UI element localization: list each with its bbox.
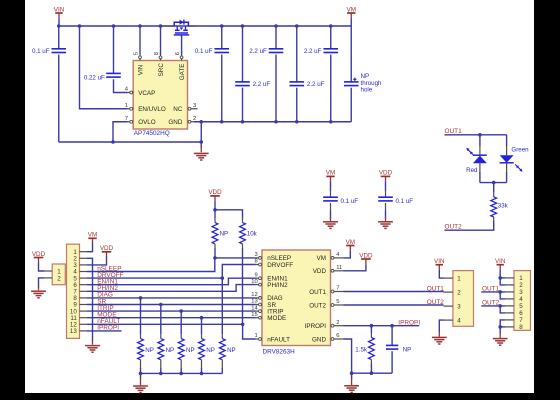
resistor R4 1.5k <box>355 326 374 374</box>
node dot nSLEEP pullup junction <box>213 256 217 260</box>
ground symbol at J4 <box>493 339 508 346</box>
node dot pulldown 1 <box>139 296 143 300</box>
J2 pin 11 stub <box>80 317 88 319</box>
J2 pin 2 stub <box>80 257 88 259</box>
J4 pin 8 stub <box>505 326 514 328</box>
U2 pin 2 IPROPI stub <box>305 320 344 330</box>
J2 pin 6 stub <box>80 284 88 286</box>
wire GND drop to ground <box>200 122 202 152</box>
svg-text:IPROPI: IPROPI <box>305 323 327 330</box>
wire J2 pin3 to VDD <box>87 257 107 265</box>
J4 pin 3 stub <box>505 291 514 293</box>
svg-text:AP74502HQ: AP74502HQ <box>134 130 170 137</box>
J2 pin 3 stub <box>80 264 88 266</box>
J3 pin 2 stub <box>444 291 453 293</box>
svg-text:3: 3 <box>254 252 257 258</box>
U2 pin 12 DIAG stub <box>251 292 283 302</box>
net label DRVOFF <box>97 272 123 279</box>
wire OUT1 LED top <box>445 134 507 136</box>
svg-text:0.22 uF: 0.22 uF <box>84 74 105 81</box>
U2 pin 3 nSLEEP stub <box>254 252 291 262</box>
op-amp U2 DRV8263H body <box>262 250 331 355</box>
U1 pin 8 SRC stub <box>154 52 165 76</box>
U1 pin 7 OVLO stub <box>125 116 156 126</box>
svg-text:7: 7 <box>125 116 128 122</box>
node dot VDD pullup branch <box>213 208 217 212</box>
svg-text:NC: NC <box>173 106 183 113</box>
svg-text:2: 2 <box>193 116 196 122</box>
svg-text:2.2 uF: 2.2 uF <box>253 81 271 88</box>
U2 pin 5 OUT2 stub <box>309 299 343 309</box>
svg-text:7: 7 <box>336 286 339 292</box>
power flag VM middle <box>326 170 335 191</box>
capacitor C3 0.1 uF <box>195 26 229 122</box>
node dot LED bottom <box>492 181 496 185</box>
wire pulldown rail to ground <box>140 373 142 385</box>
net label IPROPI <box>97 325 119 332</box>
svg-text:1: 1 <box>457 275 461 282</box>
svg-text:NP: NP <box>227 347 236 354</box>
connector J1 2-pin header body <box>52 264 65 285</box>
J2 pin 5 stub <box>80 277 88 279</box>
wire OVLO/GND lower run <box>59 141 202 143</box>
svg-text:MODE: MODE <box>267 315 286 322</box>
svg-text:4: 4 <box>519 296 523 303</box>
svg-text:OVLO: OVLO <box>138 119 156 126</box>
J2 pin 13 stub <box>80 330 88 332</box>
node dot J4 OUT2 <box>498 304 502 308</box>
svg-text:15: 15 <box>251 312 257 318</box>
net label PH/IN2 <box>97 285 118 292</box>
svg-text:nFAULT: nFAULT <box>267 336 290 343</box>
svg-text:NP: NP <box>220 230 229 237</box>
ground symbol at J3 <box>432 337 447 344</box>
capacitor C4 2.2 uF <box>249 26 283 122</box>
black frame bottom bar <box>25 393 534 400</box>
net label ITRIP <box>97 305 113 312</box>
svg-text:EN/UVLO: EN/UVLO <box>138 106 166 113</box>
resistor NP pulldown 5 <box>219 278 235 373</box>
node dot IPROPI 1.5k <box>370 324 374 328</box>
ground symbol under U1 <box>194 153 209 160</box>
svg-text:13: 13 <box>70 328 77 335</box>
node dots IPROPI ground rail <box>350 371 373 375</box>
wire MODE run <box>87 317 256 319</box>
wire OUT2 to J3 <box>344 304 444 306</box>
J4 pin 4 stub <box>505 298 514 300</box>
svg-text:9: 9 <box>254 272 257 278</box>
svg-text:NP: NP <box>403 346 412 353</box>
svg-text:DRVOFF: DRVOFF <box>267 262 293 269</box>
wire DRVOFF run <box>87 265 256 279</box>
svg-text:5: 5 <box>336 299 339 305</box>
svg-text:Green: Green <box>511 146 529 153</box>
svg-text:13: 13 <box>251 299 257 305</box>
svg-text:IPROPI: IPROPI <box>398 320 420 327</box>
svg-text:GND: GND <box>312 336 326 343</box>
wire LED bottom rail <box>480 182 507 184</box>
capacitor C1 0.1 uF <box>32 26 66 142</box>
svg-text:OUT1: OUT1 <box>427 285 445 292</box>
J4 pin 2 stub <box>505 284 514 286</box>
capacitor C7 2.2 uF <box>289 26 324 122</box>
svg-text:VCAP: VCAP <box>138 90 155 97</box>
node dot pulldown 4 <box>200 316 204 320</box>
J1 pin 1 stub <box>45 270 53 272</box>
net label OUT2 (LEDs) <box>445 224 463 231</box>
svg-text:8: 8 <box>254 259 257 265</box>
svg-text:SRC: SRC <box>158 63 165 77</box>
net label EN/IN1 <box>97 279 118 286</box>
node dot J4 VIN <box>498 276 502 280</box>
svg-text:6: 6 <box>175 52 181 55</box>
net label OUT1 at J4 <box>482 285 500 292</box>
node dot pulldown 2 <box>159 303 163 307</box>
J3 pin 1 stub <box>444 277 453 279</box>
connector J4 8-pin header body <box>514 271 531 332</box>
ground symbol pulldown bank <box>133 386 148 393</box>
node dot OVLO junction <box>111 140 115 144</box>
svg-text:Red: Red <box>466 167 478 174</box>
ground symbol under U2 <box>344 386 359 393</box>
svg-text:NP: NP <box>166 347 175 354</box>
U2 pin 4 VM stub <box>317 252 344 262</box>
resistor NP pulldown 1 <box>138 298 154 374</box>
wire OUT1 to J4 pins 3-4 <box>481 292 505 299</box>
ground symbol at J2 <box>85 346 100 353</box>
wire J2 pin2 to ground <box>87 258 93 344</box>
U2 pin 14 ITRIP stub <box>251 305 283 315</box>
J3 pin 4 stub <box>444 319 453 321</box>
resistor R3 10k pullup <box>240 218 258 324</box>
svg-text:2: 2 <box>57 276 61 283</box>
svg-text:VM: VM <box>317 255 326 262</box>
svg-text:1: 1 <box>57 268 61 275</box>
wire VIN/VM top rail <box>59 25 352 27</box>
net label OUT2 at J3 <box>427 299 445 306</box>
svg-text:OUT1: OUT1 <box>309 289 326 296</box>
U2 pin 1 nFAULT stub <box>254 333 290 343</box>
LED D2 Green <box>500 135 530 183</box>
power flag VM top <box>347 6 356 26</box>
op-amp U1 AP74502HQ body <box>133 61 187 138</box>
svg-text:5: 5 <box>134 52 140 55</box>
net label SR <box>97 298 106 305</box>
U1 pin 1 EN/UVLO stub <box>125 103 166 113</box>
svg-text:NP: NP <box>145 347 154 354</box>
resistor NP pulldown 2 <box>158 305 174 374</box>
J1 pin 2 stub <box>45 277 53 279</box>
net label MODE <box>97 312 117 319</box>
capacitor C6 2.2 uF <box>235 26 270 122</box>
resistor NP pulldown 3 <box>178 311 194 373</box>
svg-text:14: 14 <box>251 305 258 311</box>
svg-text:2.2 uF: 2.2 uF <box>249 48 267 55</box>
svg-text:PH/IN2: PH/IN2 <box>267 282 288 289</box>
wire nSLEEP run <box>87 258 256 272</box>
wire J1 pin1 to VDD <box>39 263 45 272</box>
svg-text:2: 2 <box>519 282 523 289</box>
svg-text:4: 4 <box>457 317 461 324</box>
power flag VDD at U2 <box>359 252 373 264</box>
J2 pin 7 stub <box>80 290 88 292</box>
svg-text:3: 3 <box>193 103 196 109</box>
J2 pin 8 stub <box>80 297 88 299</box>
capacitor C9 NP on IPROPI <box>386 326 411 374</box>
connector J3 4-pin header body <box>453 271 474 327</box>
U1 pin 5 VIN stub <box>134 52 145 75</box>
resistor R2 NP pullup <box>212 210 228 258</box>
svg-text:10: 10 <box>251 279 257 285</box>
wire IPROPI run <box>344 325 420 327</box>
svg-text:DRV8263H: DRV8263H <box>263 348 296 355</box>
wire U2 VM <box>344 251 351 258</box>
svg-text:1: 1 <box>519 275 523 282</box>
svg-text:GND: GND <box>168 119 182 126</box>
J4 pin 7 stub <box>505 319 514 321</box>
svg-text:5: 5 <box>519 303 523 310</box>
U2 pin 6 GND stub <box>312 333 344 343</box>
wire SR run <box>87 304 256 306</box>
svg-text:6: 6 <box>519 310 523 317</box>
svg-text:0.1 uF: 0.1 uF <box>396 198 414 205</box>
black frame right bar <box>534 0 560 400</box>
U2 pin 15 MODE stub <box>251 312 286 322</box>
svg-text:3: 3 <box>457 303 461 310</box>
wire OVLO to GND net <box>113 122 128 142</box>
power flag VM at U2 <box>346 239 355 251</box>
node dots on GND rail <box>199 120 332 124</box>
net label OUT1 at J3 <box>427 285 445 292</box>
svg-text:VIN: VIN <box>138 64 145 75</box>
J2 pin 4 stub <box>80 271 88 273</box>
svg-text:GATE: GATE <box>179 64 186 81</box>
wire to U2 ground symbol <box>351 373 353 385</box>
wire PH/IN2 run <box>87 285 256 292</box>
capacitor C5 2.2 uF <box>304 26 338 122</box>
svg-text:VDD: VDD <box>313 268 327 275</box>
wire J3 pin1 to VIN <box>439 270 443 278</box>
power flag VDD at J2 <box>100 245 114 257</box>
wire J1 pin2 to ground <box>39 278 45 290</box>
svg-text:0.1 uF: 0.1 uF <box>32 48 50 55</box>
U2 pin 7 OUT1 stub <box>309 286 343 296</box>
svg-text:1: 1 <box>254 333 257 339</box>
svg-text:12: 12 <box>251 292 257 298</box>
net label nSLEEP <box>97 265 121 272</box>
U2 pin 11 VDD stub <box>313 265 344 275</box>
node dot LED top <box>478 133 482 137</box>
J4 pin 1 stub <box>505 277 514 279</box>
wire VIN rail to U1 pin 5 <box>139 26 141 55</box>
wire J3 pin4 to ground <box>439 320 443 337</box>
power flag VIN <box>54 6 65 26</box>
resistor NP pulldown 4 <box>199 318 215 374</box>
J4 pin 6 stub <box>505 312 514 314</box>
power flag VDD pullups <box>208 189 222 210</box>
ground under VM cap <box>323 217 338 228</box>
capacitor 0.1 uF on VDD <box>378 190 413 218</box>
node junction dots on top rail <box>57 24 333 28</box>
power flag VDD middle <box>379 170 393 191</box>
wire pulldown ground rail <box>141 372 223 374</box>
power flag VDD at J1 <box>32 251 46 263</box>
wire VDD branch to 10k <box>215 210 243 218</box>
connector J2 13-pin header body <box>67 244 80 338</box>
svg-text:1: 1 <box>125 103 128 109</box>
wire DIAG run <box>87 297 256 299</box>
node dot pulldown 3 <box>179 309 183 313</box>
ground symbol at J1 <box>31 291 46 298</box>
J3 pin 3 stub <box>444 305 453 307</box>
node dot nFAULT pullup <box>241 323 245 327</box>
U2 pin 8 DRVOFF stub <box>254 259 293 269</box>
svg-text:11: 11 <box>336 265 342 271</box>
wire EN/UVLO to VIN rail <box>80 26 128 109</box>
svg-text:OUT2: OUT2 <box>445 224 463 231</box>
node dot J4 GND <box>498 325 502 329</box>
U2 pin 9 EN/IN1 stub <box>254 272 288 282</box>
U1 pin 4 VCAP stub <box>125 87 156 97</box>
svg-text:OUT2: OUT2 <box>309 302 326 309</box>
J2 pin 9 stub <box>80 304 88 306</box>
J4 pin 5 stub <box>505 305 514 307</box>
svg-text:2: 2 <box>336 320 339 326</box>
svg-text:2.2 uF: 2.2 uF <box>304 48 322 55</box>
wire GND rail under cap bank <box>194 121 351 123</box>
wire IPROPI filter ground rail <box>352 372 393 374</box>
svg-text:7: 7 <box>519 317 523 324</box>
svg-text:OUT2: OUT2 <box>427 299 445 306</box>
svg-text:6: 6 <box>336 333 339 339</box>
ground under VDD cap <box>378 217 393 228</box>
svg-text:10k: 10k <box>247 230 258 237</box>
wire U2 VDD <box>344 264 366 271</box>
net label nFAULT <box>97 318 120 325</box>
capacitor C8 NP electrolytic through hole <box>344 26 382 122</box>
resistor R1 33k <box>445 183 509 231</box>
wire U2 GND <box>344 339 352 373</box>
svg-text:NP: NP <box>186 347 195 354</box>
wire OUT2 to J4 pins 5-6 <box>481 306 505 313</box>
power flag VIN at J4 <box>495 258 506 270</box>
wire IPROPI left segment <box>87 330 122 332</box>
svg-text:8: 8 <box>154 52 160 55</box>
U1 pin 6 GATE stub <box>175 52 186 80</box>
transistor Q1 P-MOSFET with body diode <box>162 20 197 37</box>
power flag VIN at J3 <box>434 258 445 270</box>
capacitor C2 0.22 uF <box>84 26 128 93</box>
wire nFAULT run <box>87 324 256 339</box>
svg-text:NP: NP <box>206 347 215 354</box>
net label OUT2 at J4 <box>482 299 500 306</box>
U1 pin 2 GND stub <box>168 116 196 126</box>
J2 pin 10 stub <box>80 310 88 312</box>
U2 pin 13 SR stub <box>251 299 276 309</box>
J2 pin 1 stub <box>80 251 88 253</box>
svg-text:0.1 uF: 0.1 uF <box>195 48 213 55</box>
node dot DRVOFF pulldown <box>221 276 225 280</box>
node dots pulldown rail <box>139 372 204 376</box>
wire ITRIP run <box>87 310 256 312</box>
net label IPROPI at U2 <box>398 320 420 327</box>
wire J4 VIN to pins 1-2 <box>500 270 505 285</box>
svg-text:1.5k: 1.5k <box>355 346 368 353</box>
net label OUT1 (LEDs) <box>445 128 463 135</box>
wire J2 pin1 to VM <box>87 243 93 252</box>
svg-text:2.2 uF: 2.2 uF <box>307 81 325 88</box>
power flag VM at J2 <box>88 232 97 244</box>
J2 pin 12 stub <box>80 323 88 325</box>
svg-text:33k: 33k <box>498 203 509 210</box>
U1 pin 3 NC stub <box>173 103 197 113</box>
node dot IPROPI NP cap <box>390 324 394 328</box>
node dot J4 OUT1 <box>498 290 502 294</box>
capacitor 0.1 uF on VM <box>323 190 358 218</box>
wire Q1 gate to U1 pin 6 <box>181 36 183 55</box>
svg-text:0.1 uF: 0.1 uF <box>341 198 359 205</box>
wire J4 GND pins 7-8 <box>500 320 505 338</box>
LED D1 Red <box>466 135 487 183</box>
net label DIAG <box>97 292 113 299</box>
wire VIN rail to U1 pin 8 <box>160 26 162 55</box>
U2 pin 10 PH/IN2 stub <box>251 279 288 289</box>
wire OUT1 to J3 <box>344 291 444 293</box>
svg-text:3: 3 <box>519 289 523 296</box>
node dot AP GND junction <box>199 140 203 144</box>
wire EN/IN1 run <box>87 278 256 285</box>
svg-text:8: 8 <box>519 324 523 331</box>
black frame left bar <box>0 0 25 400</box>
svg-text:hole: hole <box>361 87 373 94</box>
svg-text:2: 2 <box>457 289 461 296</box>
